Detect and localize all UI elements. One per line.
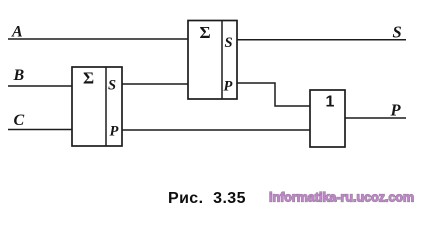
- half-adder HS1 body: [72, 67, 122, 146]
- svg-text:Σ: Σ: [83, 69, 94, 88]
- wire OR output to P: [345, 117, 406, 119]
- svg-text:C: C: [14, 112, 25, 129]
- wire HS1.S to HS2: [122, 83, 188, 85]
- svg-text:S: S: [225, 35, 233, 51]
- svg-text:S: S: [108, 78, 116, 94]
- svg-text:P: P: [224, 79, 233, 95]
- svg-text:Рис. 3.35: Рис. 3.35: [168, 190, 246, 207]
- svg-text:A: A: [11, 24, 23, 41]
- half-adder HS2 divider: [221, 21, 223, 100]
- OR gate U3 body: [310, 90, 345, 147]
- wire HS2.S output to S: [237, 39, 406, 41]
- wire A input: [8, 38, 188, 40]
- svg-text:informatika-ru.ucoz.com: informatika-ru.ucoz.com: [269, 191, 414, 205]
- wire B input: [8, 85, 72, 87]
- svg-text:P: P: [390, 101, 402, 120]
- svg-text:B: B: [13, 67, 25, 84]
- wire C input: [8, 129, 72, 131]
- svg-text:1: 1: [326, 94, 335, 111]
- svg-text:S: S: [393, 23, 402, 42]
- svg-text:P: P: [110, 124, 119, 140]
- half-adder HS2 body: [188, 21, 237, 100]
- wire HS1.P to OR gate: [122, 129, 310, 131]
- wire HS2.P to OR gate: [237, 83, 310, 106]
- svg-text:Σ: Σ: [200, 23, 211, 42]
- half-adder HS1 divider: [105, 67, 107, 146]
